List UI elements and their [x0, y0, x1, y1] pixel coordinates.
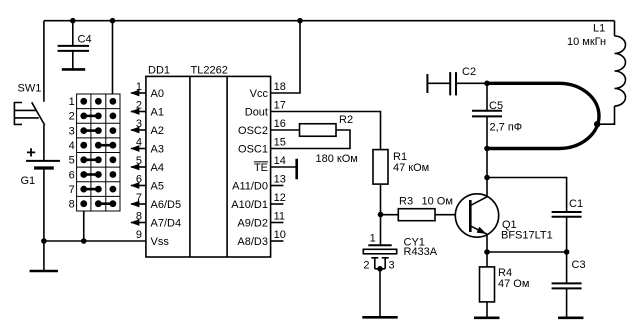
svg-text:G1: G1 — [21, 175, 36, 187]
svg-text:OSC1: OSC1 — [238, 143, 268, 155]
svg-text:10: 10 — [274, 229, 286, 241]
node junction C2 C5 loop top — [484, 81, 490, 87]
svg-text:13: 13 — [274, 174, 286, 186]
svg-text:BFS17LT1: BFS17LT1 — [501, 230, 553, 242]
svg-text:A2: A2 — [151, 125, 164, 137]
svg-text:3: 3 — [69, 125, 75, 137]
node junction loop bottom — [484, 146, 490, 152]
IC right pin names — [231, 88, 268, 248]
svg-text:L1: L1 — [593, 22, 605, 34]
pin 5 stub A4 — [130, 155, 146, 170]
ground under G1 — [30, 241, 58, 271]
svg-text:A6/D5: A6/D5 — [151, 199, 182, 211]
ground under CY1 — [362, 269, 397, 318]
svg-text:47 Ом: 47 Ом — [498, 278, 529, 290]
jumper block S1 outline — [77, 94, 120, 211]
svg-text:OSC2: OSC2 — [238, 125, 268, 137]
pin 8 stub A7/D4 — [130, 211, 146, 226]
wire R1 to node — [380, 184, 382, 214]
svg-text:Dout: Dout — [245, 106, 268, 118]
svg-text:1: 1 — [370, 232, 376, 244]
node junction loop to L1 — [594, 121, 600, 127]
svg-text:C4: C4 — [78, 34, 92, 46]
pin 14 stub TE with end bar — [271, 155, 297, 179]
svg-text:C1: C1 — [569, 198, 583, 210]
svg-text:A3: A3 — [151, 143, 164, 155]
svg-text:C3: C3 — [572, 259, 586, 271]
IC left pin names — [151, 88, 182, 248]
pin 3 stub A2 — [130, 118, 146, 133]
node junction rail at jumper feed — [110, 18, 116, 24]
wire jumper block to bottom rail — [83, 211, 85, 241]
svg-text:4: 4 — [136, 137, 142, 149]
svg-text:A7/D4: A7/D4 — [151, 217, 182, 229]
svg-text:R3: R3 — [399, 196, 413, 208]
svg-text:TE: TE — [254, 162, 268, 174]
svg-text:C5: C5 — [489, 100, 503, 112]
svg-text:DD1: DD1 — [148, 65, 170, 77]
capacitor C3 — [552, 252, 586, 288]
svg-text:7: 7 — [69, 184, 75, 196]
svg-text:A0: A0 — [151, 88, 164, 100]
wire top supply rail — [44, 20, 615, 22]
svg-text:1: 1 — [69, 96, 75, 108]
wire R2 to OSC1 — [271, 130, 350, 149]
wire emitter to C1 C3 column — [487, 251, 567, 253]
svg-text:5: 5 — [136, 155, 142, 167]
svg-text:2,7 пФ: 2,7 пФ — [490, 122, 523, 134]
loop antenna thick D shape — [487, 83, 599, 148]
wire left vertical from rail to SW1 — [43, 21, 45, 102]
resistor R2 — [300, 114, 358, 165]
svg-text:5: 5 — [69, 155, 75, 167]
svg-text:17: 17 — [274, 100, 286, 112]
wire collector vertical — [486, 178, 488, 197]
pin 11 stub — [271, 211, 285, 223]
jumper links — [84, 116, 113, 204]
jumper block contact dots — [80, 98, 116, 207]
svg-text:14: 14 — [274, 155, 286, 167]
node junction left bottom — [41, 238, 47, 244]
svg-text:1: 1 — [136, 81, 142, 93]
svg-text:2: 2 — [136, 100, 142, 112]
ground under C4 — [62, 68, 85, 71]
capacitor C5 — [472, 83, 522, 148]
wire bottom Vss rail — [44, 240, 146, 242]
svg-text:A5: A5 — [151, 180, 164, 192]
svg-text:R2: R2 — [339, 114, 353, 126]
antenna terminal bar at C2 — [426, 74, 428, 93]
svg-text:3: 3 — [389, 259, 395, 271]
transistor Q1 — [455, 194, 552, 252]
node junction bottom rail at jumper — [81, 238, 87, 244]
svg-text:3: 3 — [136, 118, 142, 130]
svg-text:11: 11 — [274, 211, 285, 223]
node junction R1 R3 CY1 — [378, 212, 384, 218]
svg-text:47 кОм: 47 кОм — [393, 162, 429, 174]
node junction rail at Vcc feed — [297, 18, 303, 24]
svg-text:4: 4 — [69, 140, 75, 152]
wire rail to jumper block — [112, 21, 114, 94]
pin 7 stub A6/D5 — [130, 192, 146, 207]
capacitor C1 — [552, 198, 583, 252]
pin 16 stub OSC2 — [271, 118, 300, 130]
battery G1 — [21, 148, 61, 187]
svg-text:8: 8 — [136, 211, 142, 223]
svg-text:A11/D0: A11/D0 — [232, 180, 268, 192]
wire branch to C1 — [487, 178, 567, 213]
wire loop bottom to collector branch — [486, 149, 488, 178]
svg-text:A4: A4 — [151, 162, 164, 174]
node junction emitter — [484, 249, 490, 255]
resistor R3 — [381, 196, 456, 221]
svg-text:12: 12 — [274, 192, 286, 204]
resistor R1 — [373, 150, 429, 185]
pin 12 stub — [271, 192, 286, 204]
svg-text:Vss: Vss — [151, 236, 170, 248]
pin 6 stub A5 — [130, 174, 146, 189]
ground under R4 — [474, 302, 500, 318]
wire battery to bottom node — [43, 168, 45, 241]
pin 1 stub A0 — [130, 81, 146, 96]
jumper block row labels — [69, 96, 75, 210]
resonator CY1 — [363, 215, 437, 272]
svg-text:10 Ом: 10 Ом — [422, 196, 453, 208]
svg-text:Vcc: Vcc — [250, 88, 269, 100]
svg-text:SW1: SW1 — [18, 83, 42, 95]
svg-text:18: 18 — [274, 81, 286, 93]
capacitor C4 — [58, 21, 92, 70]
switch SW1 — [14, 83, 44, 126]
pin 10 stub — [271, 229, 286, 241]
svg-text:15: 15 — [274, 137, 286, 149]
pin 18 wire Vcc to rail — [271, 21, 300, 94]
pin 13 stub — [271, 174, 286, 186]
svg-text:A10/D1: A10/D1 — [231, 199, 268, 211]
node junction rail at C4 — [70, 18, 76, 24]
svg-text:6: 6 — [69, 169, 75, 181]
svg-text:TL2262: TL2262 — [191, 65, 228, 77]
svg-text:A1: A1 — [151, 106, 164, 118]
svg-text:C2: C2 — [462, 66, 476, 78]
pin 4 stub A3 — [130, 137, 146, 152]
pin 17 wire Dout to R1 — [271, 100, 381, 150]
svg-text:A9/D2: A9/D2 — [237, 217, 268, 229]
svg-text:6: 6 — [136, 174, 142, 186]
svg-text:10 мкГн: 10 мкГн — [567, 36, 606, 48]
capacitor C2 — [427, 66, 487, 95]
pin 2 stub A1 — [130, 100, 146, 115]
node junction C1 C3 — [564, 249, 570, 255]
node junction collector C1 branch — [484, 175, 490, 181]
pin 9 label Vss — [136, 229, 142, 241]
svg-text:9: 9 — [136, 229, 142, 241]
node junction CY1 pins 2-3 — [377, 266, 383, 272]
svg-text:2: 2 — [363, 259, 369, 271]
svg-text:16: 16 — [274, 118, 286, 130]
pin 15 label — [274, 137, 286, 149]
svg-text:R433A: R433A — [404, 246, 438, 258]
svg-text:180 кОм: 180 кОм — [316, 153, 358, 165]
IC DD1 box — [146, 65, 271, 258]
resistor R4 — [480, 252, 530, 302]
ground under C3 — [558, 288, 584, 317]
svg-text:8: 8 — [69, 199, 75, 211]
svg-text:2: 2 — [69, 111, 75, 123]
svg-text:7: 7 — [136, 192, 142, 204]
wire SW1 to battery — [43, 125, 45, 160]
inductor L1 — [567, 21, 626, 125]
svg-text:A8/D3: A8/D3 — [237, 236, 268, 248]
